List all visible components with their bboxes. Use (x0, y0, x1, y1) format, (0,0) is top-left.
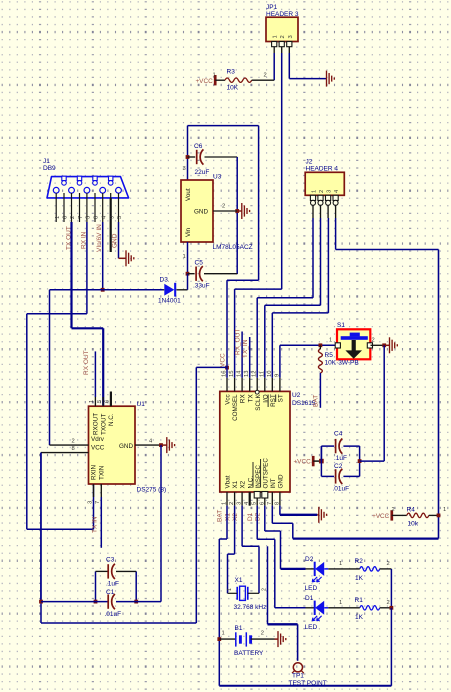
svg-text:U3: U3 (213, 174, 222, 181)
svg-text:C3: C3 (106, 557, 115, 564)
svg-text:2: 2 (261, 631, 264, 637)
svg-text:TEST POINT: TEST POINT (289, 680, 327, 687)
svg-text:1N4001: 1N4001 (158, 298, 181, 305)
svg-text:Vin: Vin (185, 228, 192, 237)
svg-text:3: 3 (86, 216, 92, 219)
svg-text:U1: U1 (137, 401, 146, 408)
svg-text:R2: R2 (355, 558, 364, 565)
svg-text:5: 5 (97, 400, 103, 403)
svg-text:5: 5 (252, 502, 258, 505)
svg-text:TX: TX (247, 394, 254, 403)
svg-text:2: 2 (372, 338, 375, 344)
svg-text:GND: GND (194, 209, 208, 216)
svg-text:TXIN: TXIN (99, 465, 106, 480)
svg-text:Vcc: Vcc (225, 394, 232, 405)
svg-text:VIn/6V IN: VIn/6V IN (96, 224, 103, 252)
svg-text:1: 1 (443, 507, 446, 513)
svg-text:2: 2 (387, 600, 390, 606)
svg-text:6: 6 (63, 216, 69, 219)
svg-text:8: 8 (274, 502, 280, 505)
svg-text:C5: C5 (195, 260, 204, 267)
svg-text:2: 2 (229, 502, 235, 505)
svg-text:RX_OUT: RX_OUT (234, 329, 241, 355)
svg-text:D2: D2 (305, 556, 314, 563)
svg-text:22uF: 22uF (195, 169, 210, 176)
svg-text:VCC: VCC (91, 445, 105, 452)
svg-text:X2: X2 (232, 513, 239, 521)
svg-text:J2: J2 (306, 159, 313, 166)
svg-text:1: 1 (339, 600, 342, 606)
svg-text:R4: R4 (407, 507, 416, 514)
svg-text:RXIN: RXIN (91, 465, 98, 480)
svg-text:1: 1 (89, 400, 95, 403)
svg-text:LED: LED (305, 624, 318, 631)
svg-text:TXOUT: TXOUT (100, 414, 107, 435)
svg-text:2: 2 (222, 204, 225, 210)
svg-text:+VCC: +VCC (293, 459, 311, 466)
svg-text:B1: B1 (235, 625, 243, 632)
svg-text:1: 1 (183, 254, 186, 260)
svg-text:C6: C6 (194, 143, 203, 150)
svg-text:1K: 1K (355, 614, 364, 621)
svg-text:BAT: BAT (313, 395, 320, 407)
svg-text:.01uF: .01uF (105, 611, 122, 618)
svg-text:.1uF: .1uF (334, 455, 347, 462)
svg-text:RXOUT: RXOUT (93, 413, 100, 435)
svg-text:Vout: Vout (185, 188, 192, 201)
svg-text:R3: R3 (227, 68, 236, 75)
svg-text:COMSEL: COMSEL (232, 394, 239, 421)
svg-text:1: 1 (55, 216, 61, 219)
svg-text:GND: GND (278, 474, 285, 488)
svg-text:2: 2 (280, 35, 286, 38)
svg-text:2: 2 (392, 507, 395, 513)
svg-text:10K·3W-PB: 10K·3W-PB (325, 360, 359, 367)
svg-text:.1uF: .1uF (106, 581, 119, 588)
svg-text:D1: D1 (247, 512, 254, 521)
svg-text:RX OUT: RX OUT (83, 350, 90, 375)
svg-text:RX: RX (240, 394, 247, 404)
svg-text:1: 1 (312, 190, 318, 193)
svg-text:TX_IN: TX_IN (242, 339, 249, 358)
svg-text:HEADER 4: HEADER 4 (306, 166, 339, 173)
svg-text:2: 2 (319, 190, 325, 193)
svg-text:2: 2 (70, 216, 76, 219)
svg-text:10k: 10k (408, 521, 419, 528)
svg-text:6: 6 (259, 502, 265, 505)
svg-text:2: 2 (262, 588, 268, 591)
svg-text:7: 7 (78, 216, 84, 219)
svg-text:OUTSPEC: OUTSPEC (262, 458, 269, 489)
svg-text:JP1: JP1 (266, 4, 278, 11)
svg-text:2: 2 (387, 561, 390, 567)
svg-text:SCLK: SCLK (255, 394, 262, 411)
svg-text:1: 1 (339, 561, 342, 567)
svg-text:X1: X1 (225, 513, 232, 521)
svg-text:C4: C4 (334, 431, 343, 438)
svg-text:7: 7 (95, 501, 101, 504)
svg-text:1: 1 (213, 73, 216, 79)
svg-text:R5: R5 (325, 352, 334, 359)
svg-text:+VCC: +VCC (372, 513, 390, 520)
svg-text:3: 3 (183, 166, 186, 172)
svg-text:LED: LED (305, 585, 318, 592)
svg-text:Vbat: Vbat (225, 475, 232, 488)
svg-text:3: 3 (237, 502, 243, 505)
svg-text:C1: C1 (106, 589, 115, 596)
svg-text:D3: D3 (160, 277, 169, 284)
svg-text:2: 2 (72, 439, 75, 445)
svg-text:1: 1 (227, 588, 233, 591)
svg-text:TP1: TP1 (292, 673, 304, 680)
svg-text:TX IN: TX IN (92, 516, 99, 533)
svg-text:S1: S1 (337, 322, 345, 329)
svg-text:8: 8 (72, 446, 75, 452)
svg-text:VCC: VCC (220, 353, 227, 367)
svg-text:8: 8 (94, 216, 100, 219)
svg-text:N.C.: N.C. (108, 413, 115, 426)
svg-text:BAT: BAT (217, 510, 224, 522)
svg-text:Vdrv: Vdrv (91, 436, 105, 443)
svg-text:1: 1 (273, 35, 279, 38)
svg-text:GND: GND (112, 233, 119, 248)
svg-text:C2: C2 (334, 463, 343, 470)
svg-text:R1: R1 (355, 597, 364, 604)
svg-text:BATTERY: BATTERY (234, 650, 264, 657)
svg-text:X2: X2 (240, 480, 247, 488)
svg-text:6: 6 (105, 400, 111, 403)
svg-text:3: 3 (327, 190, 333, 193)
svg-text:ST: ST (278, 394, 285, 402)
svg-text:3: 3 (87, 501, 93, 504)
svg-text:32.768 kHz: 32.768 kHz (234, 604, 267, 611)
svg-text:1: 1 (329, 338, 332, 344)
svg-text:X1: X1 (235, 577, 243, 584)
svg-text:9: 9 (109, 216, 115, 219)
svg-text:INT: INT (270, 478, 277, 488)
svg-text:D2: D2 (255, 512, 262, 521)
svg-text:1K: 1K (355, 575, 364, 582)
svg-text:GND: GND (119, 443, 133, 450)
svg-text:LM78L05ACZ: LM78L05ACZ (213, 244, 253, 251)
svg-text:.01uF: .01uF (333, 486, 350, 493)
svg-text:3: 3 (288, 35, 294, 38)
svg-text:2: 2 (264, 73, 267, 79)
svg-text:DB9: DB9 (43, 165, 56, 172)
svg-text:.33uF: .33uF (193, 283, 210, 290)
svg-text:D1: D1 (305, 595, 314, 602)
svg-text:5: 5 (117, 216, 123, 219)
svg-text:1: 1 (222, 502, 228, 505)
svg-text:X1: X1 (232, 480, 239, 488)
svg-text:U2: U2 (292, 392, 301, 399)
svg-text:7: 7 (267, 502, 273, 505)
svg-text:J1: J1 (43, 158, 50, 165)
svg-text:10K: 10K (227, 85, 239, 92)
svg-text:1: 1 (222, 631, 225, 637)
svg-text:+VCC: +VCC (195, 78, 213, 85)
